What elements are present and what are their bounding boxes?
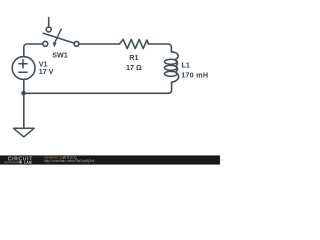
labels [39,51,209,80]
wire: switch to resistor [79,43,120,45]
switch SW1 top terminal circle [46,27,51,32]
bottom wire [24,92,166,94]
switch SW1 actuation arrow tail [55,29,62,43]
svg-text:http://circuitlab.com/c76k2kpf: http://circuitlab.com/c76k2kpf5j3c5 [44,159,95,163]
wire: inductor bottom to bottom-right corner [166,82,172,93]
inductor L1 entry hook [171,52,178,60]
switch SW1 right (common) terminal circle [74,41,79,46]
junction dot [21,91,26,96]
ground symbol triangle [13,128,34,137]
V1 minus sign [19,71,27,73]
switch SW1 arrow head [53,42,57,47]
inductor L1 crossover 2 [176,67,178,72]
resistor R1 zigzag [120,39,149,48]
inductor L1 loop 2 [165,65,178,70]
inductor L1 loop 3 [165,71,178,76]
svg-text:R1: R1 [129,53,138,62]
svg-text:LAB: LAB [24,161,32,165]
svg-text:170 mH: 170 mH [181,70,208,79]
wire: resistor to top-right corner, down to inductor top [148,44,171,52]
svg-text:17 V: 17 V [39,67,54,76]
inductor L1 crossover 1 [176,61,178,66]
switch SW1 left terminal circle [43,41,48,46]
watermark bar [0,155,220,164]
svg-text:SW1: SW1 [52,51,68,60]
switch SW1 blade [43,33,74,43]
inductor L1 exit hook [172,73,179,83]
ground wire [23,93,25,127]
V1 plus sign [19,60,27,73]
svg-text:17 Ω: 17 Ω [126,63,142,72]
inductor L1 loop 1 [165,59,178,64]
switch SW1 top stub wire [48,18,50,27]
wire: top-left corner, V1 top to switch [24,44,43,57]
svg-text:L1: L1 [182,61,190,70]
voltage source V1 circle [12,57,35,80]
left wire: V1 bottom to junction [23,79,25,93]
